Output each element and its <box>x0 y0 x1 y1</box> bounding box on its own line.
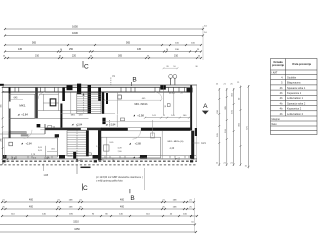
svg-text:MK1: MK1 <box>19 104 26 108</box>
svg-text:10: 10 <box>245 166 248 168</box>
elevation +2,98 right unit <box>133 115 135 117</box>
svg-text:25: 25 <box>197 49 200 51</box>
svg-text:p=100: p=100 <box>169 93 176 95</box>
left exterior wall (upper) <box>9 87 11 130</box>
svg-text:25: 25 <box>79 206 82 208</box>
wall stair-hall/right unit <box>102 93 104 115</box>
small dark cell (WC) <box>50 99 56 106</box>
elevation +2,84 right of stair <box>106 124 108 126</box>
svg-text:1/18: 1/18 <box>79 114 84 116</box>
section marker C top <box>82 61 84 68</box>
svg-text:C: C <box>84 63 89 70</box>
lower-right room outline <box>101 137 160 158</box>
small rect wc lower <box>121 118 125 121</box>
leader 1/21 <box>193 142 200 144</box>
svg-text:Vrsta prostorije: Vrsta prostorije <box>292 62 312 66</box>
top dimension chain line 5 (25/310/25/220/25/305/25/310/25) <box>5 57 201 59</box>
svg-text:21: 21 <box>223 163 226 165</box>
top wall double lines <box>2 86 192 88</box>
svg-text:645: 645 <box>14 97 19 99</box>
window gap in left wall <box>8 101 10 109</box>
svg-text:B: B <box>132 76 136 83</box>
svg-text:565: 565 <box>32 41 37 44</box>
stair right wall lower (black) <box>86 130 89 156</box>
svg-text:220: 220 <box>72 54 77 57</box>
door arc lower left <box>24 130 33 139</box>
middle wall: right section <box>101 128 128 131</box>
svg-text:90: 90 <box>92 213 95 215</box>
lower-right secondary room divider <box>161 131 163 159</box>
legend table <box>271 59 318 135</box>
bottom overall dim 1650 <box>0 231 196 233</box>
section marker B top <box>131 82 133 86</box>
right unit partitions <box>163 85 165 114</box>
right witness line of top dims <box>202 26 204 60</box>
svg-text:165: 165 <box>217 132 219 136</box>
V2 shaft box <box>48 126 52 128</box>
svg-text:25: 25 <box>216 83 219 85</box>
svg-text:190: 190 <box>175 49 179 51</box>
door arc top-right wall <box>155 92 162 99</box>
svg-text:21: 21 <box>230 163 233 165</box>
bottom overall dim 1510 <box>0 224 195 226</box>
svg-text:10: 10 <box>60 49 62 51</box>
interior dim line 445 <box>104 99 161 101</box>
right exterior wall (upper) <box>190 85 192 130</box>
lower-left partitions <box>44 146 46 157</box>
terrace strip left <box>3 132 9 138</box>
svg-text:25: 25 <box>162 206 165 208</box>
svg-text:7,60: 7,60 <box>118 151 123 153</box>
svg-text:138: 138 <box>69 199 73 201</box>
svg-text:MK1 i MK1b (G): MK1 i MK1b (G) <box>168 141 184 143</box>
upper stair walk line with arrow <box>83 95 85 113</box>
svg-text:25: 25 <box>2 206 5 208</box>
interior pier D <box>106 93 108 104</box>
svg-text:I.KAT: I.KAT <box>272 71 278 74</box>
svg-text:10: 10 <box>204 26 207 28</box>
svg-text:+2,84: +2,84 <box>21 113 28 117</box>
svg-text:1650: 1650 <box>72 24 78 28</box>
closet partitions upper-left <box>42 94 44 110</box>
svg-text:30: 30 <box>239 97 241 100</box>
svg-text:Neto: Neto <box>272 123 278 126</box>
lower-left room labels <box>21 143 23 145</box>
svg-text:+2,84: +2,84 <box>76 124 83 127</box>
top wall window jambs <box>14 87 16 92</box>
right vertical dimension chains <box>218 88 220 166</box>
svg-text:100: 100 <box>175 42 179 44</box>
svg-text:4b: 4b <box>280 112 283 116</box>
svg-text:21: 21 <box>57 199 60 201</box>
svg-text:310: 310 <box>35 54 40 57</box>
elevation +2,84 center stair <box>72 124 74 126</box>
note leader vertical <box>143 168 145 190</box>
middle wall: center section <box>45 128 102 131</box>
svg-text:25: 25 <box>147 55 150 57</box>
stair walk line below plan <box>76 165 78 175</box>
svg-text:140: 140 <box>42 213 46 215</box>
svg-text:3,28: 3,28 <box>118 148 123 150</box>
svg-text:138: 138 <box>173 206 177 208</box>
svg-text:prostorije: prostorije <box>272 63 285 67</box>
svg-text:10: 10 <box>173 66 176 68</box>
bottom-left elevation label <box>6 158 8 160</box>
svg-text:Lođa balkon 1: Lođa balkon 1 <box>287 96 304 100</box>
svg-text:1630: 1630 <box>72 31 78 35</box>
svg-text:U05: U05 <box>110 142 115 144</box>
svg-text:25: 25 <box>90 55 93 57</box>
svg-text:145: 145 <box>171 115 175 117</box>
svg-text:Spavaća soba 1: Spavaća soba 1 <box>287 86 306 90</box>
svg-text:MK1: MK1 <box>71 114 76 116</box>
hall west edge line <box>70 93 72 114</box>
svg-text:565: 565 <box>126 41 131 44</box>
bottom dimension chain line 3 <box>2 215 197 217</box>
small furniture square lower-left <box>9 142 13 146</box>
svg-text:25: 25 <box>180 93 182 95</box>
svg-text:80: 80 <box>105 213 108 215</box>
svg-text:400: 400 <box>120 205 125 208</box>
interior pier A (stair left) <box>62 88 64 101</box>
svg-text:110: 110 <box>11 213 15 215</box>
outer wall: top edge (roof overhang line) <box>0 84 197 86</box>
svg-text:400: 400 <box>120 198 125 201</box>
south wall window jambs <box>11 156 13 159</box>
svg-text:25: 25 <box>189 206 192 208</box>
svg-text:21: 21 <box>2 199 5 201</box>
svg-text:160: 160 <box>183 115 187 117</box>
svg-text:4b: 4b <box>280 96 283 100</box>
right dim chain intermediate ticks <box>218 125 220 127</box>
svg-text:A: A <box>203 103 208 110</box>
door arc lower right <box>133 131 141 139</box>
elevation +2,84 upper left <box>18 114 20 116</box>
svg-text:C: C <box>83 185 88 192</box>
svg-text:310: 310 <box>174 54 179 57</box>
lower-right unit walls <box>98 130 101 160</box>
svg-text:Kupaonica 2: Kupaonica 2 <box>287 107 302 111</box>
left wall lower <box>9 130 11 138</box>
leader 1/28 <box>43 164 45 171</box>
svg-text:4b: 4b <box>280 91 283 95</box>
svg-text:+2,84: +2,84 <box>109 124 116 127</box>
svg-text:305: 305 <box>1 103 3 107</box>
svg-text:1/21: 1/21 <box>201 143 206 145</box>
svg-text:u režiji gotovog polita kuta: u režiji gotovog polita kuta <box>96 180 123 183</box>
svg-text:Lođa balkon 2: Lođa balkon 2 <box>287 112 304 116</box>
svg-text:445: 445 <box>137 48 142 51</box>
svg-text:21: 21 <box>79 199 82 201</box>
V1 dashed vent line <box>110 78 112 86</box>
svg-text:25: 25 <box>57 206 60 208</box>
svg-text:26: 26 <box>166 66 169 68</box>
svg-text:4b: 4b <box>280 86 283 90</box>
right exterior wall (lower) <box>191 131 194 160</box>
svg-text:25: 25 <box>3 55 6 57</box>
section marker C bottom <box>81 166 91 168</box>
chimney mini dimension <box>164 67 178 69</box>
svg-text:1650: 1650 <box>74 228 80 231</box>
svg-text:305: 305 <box>118 54 123 57</box>
svg-text:MK1 i MK1b: MK1 i MK1b <box>134 103 148 106</box>
svg-text:U05: U05 <box>51 148 56 150</box>
section marker B bottom <box>129 189 131 193</box>
svg-text:+2,88: +2,88 <box>138 156 145 159</box>
svg-text:350: 350 <box>239 122 241 126</box>
door arc MK1 top wall <box>38 92 45 99</box>
bottom dimension chain line 1 <box>2 201 194 203</box>
black newel post <box>73 152 76 159</box>
svg-text:301: 301 <box>232 92 234 96</box>
svg-text:10: 10 <box>166 49 168 51</box>
svg-text:3,03: 3,03 <box>38 147 43 149</box>
chimney symbol (double circles) <box>169 75 173 79</box>
svg-text:1510: 1510 <box>73 221 79 224</box>
svg-text:25: 25 <box>59 55 62 57</box>
svg-text:p=12: p=12 <box>175 158 181 160</box>
left vertical dimension chain <box>2 87 4 164</box>
svg-text:4b: 4b <box>280 101 283 105</box>
svg-text:Blagovaona: Blagovaona <box>287 81 301 85</box>
svg-text:230: 230 <box>217 109 219 113</box>
svg-text:10: 10 <box>204 32 207 34</box>
svg-text:185: 185 <box>69 213 73 215</box>
hall lines above middle wall <box>60 113 115 115</box>
svg-text:+2,84: +2,84 <box>10 158 17 161</box>
svg-text:21: 21 <box>163 115 165 117</box>
svg-text:5: 5 <box>281 81 283 85</box>
svg-text:+2,84: +2,84 <box>26 143 33 146</box>
svg-text:100: 100 <box>183 213 187 215</box>
svg-text:4b: 4b <box>280 107 283 111</box>
upper stair flight treads <box>77 93 101 114</box>
lower-left room outline <box>3 138 58 157</box>
small square symbol right unit <box>167 104 170 107</box>
pier lower center <box>102 118 105 124</box>
partition near x152 lower <box>152 120 154 136</box>
svg-text:1/28: 1/28 <box>44 175 49 177</box>
svg-text:25: 25 <box>230 83 233 85</box>
svg-text:30: 30 <box>195 66 198 68</box>
svg-text:400: 400 <box>29 198 34 201</box>
svg-text:p= 123,60 m2 GBP dvoetažne sta: p= 123,60 m2 GBP dvoetažne stambene | <box>96 176 143 179</box>
room MK1 outline (upper left) <box>9 94 35 118</box>
top dimension chain line 4 (445/250/445/190) <box>5 51 201 53</box>
svg-text:21: 21 <box>237 82 240 84</box>
interior dim line right unit <box>145 117 190 119</box>
top dimension chain line 1 (overall 1650) <box>5 28 203 30</box>
svg-text:+2,88: +2,88 <box>135 143 142 146</box>
svg-text:9,03: 9,03 <box>38 150 43 152</box>
small wc near stair right <box>118 95 122 99</box>
svg-text:Stubište: Stubište <box>287 76 297 80</box>
svg-text:25: 25 <box>198 55 201 57</box>
svg-text:305: 305 <box>225 105 227 109</box>
top-right corner pier <box>187 88 193 92</box>
svg-text:138: 138 <box>173 199 177 201</box>
svg-text:196: 196 <box>225 128 227 132</box>
svg-text:100: 100 <box>191 42 195 44</box>
svg-text:+2,98: +2,98 <box>137 113 144 117</box>
svg-text:110: 110 <box>146 213 150 215</box>
svg-text:Oznaka: Oznaka <box>273 60 283 64</box>
svg-text:p=45: p=45 <box>98 159 104 161</box>
wall right of MK1 <box>35 87 38 118</box>
svg-text:40: 40 <box>170 213 173 215</box>
south facade wall double line <box>3 155 196 157</box>
top wall piers (black) <box>62 88 64 101</box>
threshold above lower-left room <box>21 134 29 136</box>
south wall piers <box>3 155 7 158</box>
svg-text:141: 141 <box>152 115 156 117</box>
svg-text:138: 138 <box>69 206 73 208</box>
svg-text:p=45: p=45 <box>78 160 84 162</box>
svg-text:V1: V1 <box>112 76 116 78</box>
bottom right witness <box>194 198 196 233</box>
svg-text:30: 30 <box>165 104 167 107</box>
svg-text:Spavaća soba 2: Spavaća soba 2 <box>287 101 306 105</box>
svg-text:-1,40: -1,40 <box>169 148 175 150</box>
svg-text:10: 10 <box>191 221 194 223</box>
svg-text:280: 280 <box>1 137 3 141</box>
black partition right of closet <box>60 104 62 128</box>
svg-text:445: 445 <box>142 98 146 100</box>
svg-text:140: 140 <box>119 213 123 215</box>
svg-text:21: 21 <box>223 83 226 85</box>
svg-text:445: 445 <box>18 48 23 51</box>
svg-text:400: 400 <box>29 205 34 208</box>
bottom wall band (dashed terrace edge) <box>2 158 197 160</box>
svg-text:p=45: p=45 <box>44 158 50 160</box>
svg-text:4: 4 <box>281 76 283 80</box>
svg-text:250: 250 <box>69 48 74 51</box>
V2 dashed <box>109 120 111 127</box>
small box right of post <box>88 153 91 155</box>
svg-text:21: 21 <box>189 199 192 201</box>
svg-text:575: 575 <box>247 125 249 129</box>
svg-text:21: 21 <box>216 163 219 165</box>
top dimension chain line 2 (overall 1630) <box>5 35 203 37</box>
svg-text:B: B <box>130 195 134 202</box>
svg-text:196: 196 <box>232 109 234 113</box>
top dimension chain line 3 (565/565/100/100) <box>5 44 201 46</box>
svg-text:Ukupno: Ukupno <box>272 118 281 121</box>
middle wall: left section (opening with threshold) <box>40 127 45 129</box>
stair walk line lower with arrow <box>76 125 78 161</box>
bottom dimension chain line 2 <box>2 208 194 210</box>
lower stair flight treads <box>67 131 86 156</box>
svg-text:Kupaonica 1: Kupaonica 1 <box>287 91 302 95</box>
svg-text:21: 21 <box>162 199 165 201</box>
